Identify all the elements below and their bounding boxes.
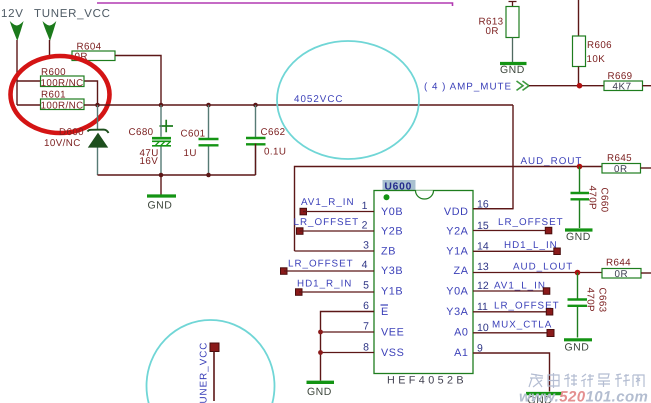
wire pin1: [303, 211, 374, 213]
svg-text:470P: 470P: [585, 288, 596, 313]
pad pin10: [547, 330, 554, 337]
ground G3 under pins 6-8: [307, 382, 335, 398]
junction AUD_LOUT at C663: [575, 270, 581, 276]
power arrow TUNER_VCC: [43, 21, 57, 41]
svg-text:ZA: ZA: [454, 265, 469, 277]
svg-text:0R: 0R: [486, 26, 499, 37]
svg-text:2: 2: [362, 220, 368, 232]
svg-text:12V: 12V: [1, 8, 24, 20]
svg-text:ZB: ZB: [381, 246, 396, 258]
svg-text:Y0A: Y0A: [446, 286, 468, 298]
wire pin2: [300, 230, 375, 232]
wire AUD_ROUT: [295, 167, 603, 252]
pad pin11: [546, 309, 553, 316]
svg-text:Y0B: Y0B: [381, 206, 403, 218]
pad pin5: [296, 289, 303, 296]
svg-text:VEE: VEE: [381, 327, 404, 339]
wire pin15: [473, 230, 549, 232]
ground G5 under C663: [564, 340, 592, 354]
wire pin16 VDD stub: [473, 208, 513, 210]
svg-text:C662: C662: [261, 127, 286, 138]
svg-text:3: 3: [363, 240, 369, 252]
junction bottom at C601: [206, 173, 211, 178]
wire pin6 with vertical to ground: [321, 312, 375, 381]
svg-text:1U: 1U: [184, 148, 197, 159]
wire pin10: [473, 332, 551, 334]
svg-text:VDD: VDD: [444, 206, 469, 218]
junction rail at C680: [159, 103, 164, 108]
wire pin8: [321, 352, 375, 354]
svg-text:10K: 10K: [587, 54, 606, 65]
resistor R644: [602, 258, 651, 281]
capacitor C680: [129, 105, 174, 175]
pad pin12: [543, 288, 550, 295]
junction pin8: [318, 350, 323, 355]
svg-text:A0: A0: [454, 327, 468, 339]
resistor R604: [72, 42, 115, 63]
IC U600 highlight tag: [383, 180, 416, 191]
svg-text:5: 5: [363, 280, 369, 292]
capacitor C663: [568, 273, 608, 338]
svg-text:0.1U: 0.1U: [264, 147, 286, 158]
capacitor C660: [571, 167, 610, 229]
svg-text:LR_OFFSET: LR_OFFSET: [498, 217, 564, 228]
resistor R600: [41, 67, 85, 89]
wire pin5: [299, 291, 374, 293]
svg-text:GND: GND: [148, 200, 173, 212]
junction rail at C662: [253, 103, 258, 108]
svg-text:GND: GND: [307, 386, 332, 398]
annotation red ellipse: [11, 56, 110, 133]
svg-text:0R: 0R: [615, 269, 629, 280]
svg-text:0R: 0R: [614, 164, 628, 175]
wire TUNER_VCC to R604: [50, 40, 73, 56]
svg-text:10V/NC: 10V/NC: [44, 138, 81, 149]
ground G1: [147, 175, 176, 212]
watermark chinese characters: [529, 373, 644, 388]
svg-text:www.520101.com: www.520101.com: [519, 389, 648, 403]
wire main VCC rail: [17, 104, 513, 106]
wire pin14: [473, 250, 557, 252]
svg-text:TUNER_VCC: TUNER_VCC: [199, 342, 210, 403]
svg-text:4K7: 4K7: [613, 82, 632, 93]
junction bottom at GND stem: [159, 173, 164, 178]
svg-text:( 4 ) AMP_MUTE: ( 4 ) AMP_MUTE: [424, 81, 512, 92]
capacitor C662: [246, 105, 286, 175]
svg-text:12: 12: [477, 280, 489, 292]
wire pin4: [284, 270, 374, 272]
resistor R645: [602, 153, 651, 175]
svg-text:470P: 470P: [587, 186, 598, 211]
svg-text:AV1_R_IN: AV1_R_IN: [301, 197, 355, 208]
wire pin13 to R644: [473, 272, 602, 274]
pad TUNER_VCC node: [210, 343, 219, 352]
off-page connector chevrons: [517, 81, 530, 90]
svg-text:C680: C680: [129, 127, 154, 138]
svg-text:100R/NC: 100R/NC: [41, 78, 84, 89]
junction pin7: [318, 330, 323, 335]
svg-text:AUD_LOUT: AUD_LOUT: [513, 262, 573, 273]
capacitor C601: [181, 105, 219, 175]
svg-text:GND: GND: [566, 231, 591, 243]
svg-text:E: E: [381, 306, 389, 318]
ground G6 under pin9: [526, 394, 562, 403]
svg-text:Y3A: Y3A: [446, 306, 468, 318]
svg-text:LR_OFFSET: LR_OFFSET: [288, 259, 354, 270]
svg-text:GND: GND: [565, 342, 590, 354]
svg-text:Y1A: Y1A: [446, 246, 468, 258]
svg-text:LR_OFFSET: LR_OFFSET: [294, 217, 360, 228]
svg-text:Y1B: Y1B: [381, 286, 403, 298]
pad pin2: [297, 228, 304, 235]
junction AMP_MUTE node: [577, 83, 583, 89]
magenta net line top: [97, 3, 453, 6]
wire bottom bus: [98, 144, 256, 176]
power arrow 12V: [10, 21, 24, 41]
svg-text:1: 1: [362, 200, 368, 212]
wire pin12: [473, 290, 547, 292]
wire 12V vertical: [16, 40, 18, 105]
svg-text:AV1_L_IN: AV1_L_IN: [494, 281, 546, 292]
resistor R669: [604, 71, 651, 93]
wire pin11: [473, 311, 550, 313]
resistor R601: [41, 90, 85, 112]
node TUNER_VCC bubble bottom: [147, 320, 275, 403]
svg-text:A1: A1: [454, 347, 468, 359]
pad pin4: [281, 268, 288, 275]
pad pin14: [554, 248, 561, 255]
junction AUD_ROUT at C660: [577, 164, 583, 170]
ground G2 under R613: [500, 64, 527, 76]
svg-text:VSS: VSS: [381, 347, 404, 359]
wire R600 branch top: [17, 81, 98, 105]
svg-text:R669: R669: [608, 71, 633, 82]
svg-text:4052VCC: 4052VCC: [294, 94, 343, 105]
wire AMP_MUTE: [529, 85, 604, 87]
wire R604 right to rail: [115, 56, 161, 106]
node 4052VCC bubble: [277, 41, 419, 159]
wire pin9 to ground: [473, 353, 550, 392]
svg-text:C663: C663: [597, 288, 608, 313]
ground G4 under C660: [565, 230, 593, 243]
svg-text:MUX_CTLA: MUX_CTLA: [492, 320, 552, 331]
svg-text:HD1_L_IN: HD1_L_IN: [504, 240, 558, 251]
svg-text:HEF4052B: HEF4052B: [387, 374, 467, 386]
pad pin1: [300, 208, 307, 215]
resistor R613: [479, 2, 520, 63]
pad pin15: [545, 227, 552, 234]
svg-text:HD1_R_IN: HD1_R_IN: [297, 279, 352, 290]
svg-text:Y2A: Y2A: [446, 226, 468, 238]
junction rail at diode: [95, 103, 100, 108]
svg-text:R644: R644: [606, 258, 631, 269]
svg-text:13: 13: [477, 261, 489, 273]
svg-text:GND: GND: [500, 64, 525, 76]
wire top vertical to R606: [578, 0, 580, 36]
svg-text:6: 6: [363, 300, 369, 312]
wire pin3: [295, 250, 375, 252]
svg-text:Y2B: Y2B: [381, 226, 403, 238]
wire TUNER_VCC node down: [213, 352, 215, 402]
svg-text:16V: 16V: [140, 156, 159, 167]
op-amp U600 body HEF4052B: [374, 191, 473, 387]
resistor R606: [573, 36, 613, 86]
wire VDD riser from rail: [473, 105, 513, 209]
svg-text:D600: D600: [59, 127, 84, 138]
svg-text:R645: R645: [607, 153, 632, 164]
svg-text:100R/NC: 100R/NC: [41, 101, 84, 112]
svg-text:8: 8: [363, 342, 369, 354]
svg-text:R606: R606: [587, 40, 612, 51]
svg-text:4: 4: [362, 259, 368, 271]
svg-text:Y3B: Y3B: [381, 265, 403, 277]
svg-text:C660: C660: [599, 188, 610, 213]
svg-text:7: 7: [363, 321, 369, 333]
diode D600 zener: [44, 105, 109, 175]
svg-text:AUD_ROUT: AUD_ROUT: [521, 156, 583, 167]
svg-text:TUNER_VCC: TUNER_VCC: [34, 8, 111, 20]
junction rail at C601: [206, 103, 211, 108]
wire pin7: [321, 331, 375, 333]
